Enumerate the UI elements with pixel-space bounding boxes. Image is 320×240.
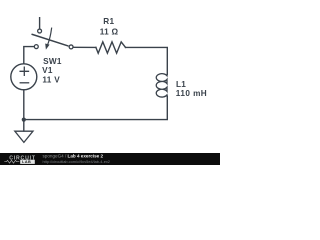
SW1 actuation arrow arc [48, 28, 52, 44]
svg-text:V1: V1 [42, 66, 53, 75]
wire: R1 to top-right corner down to L1 [126, 47, 168, 74]
svg-text:R1: R1 [103, 17, 114, 26]
CircuitLab logo LAB box [20, 160, 35, 164]
V1 minus sign [20, 82, 28, 84]
wire: SW1 common to R1 [73, 46, 96, 48]
SW1 blade [32, 34, 68, 45]
SW1 top terminal stub wire [39, 18, 41, 29]
wire: SW1 left throw to V1 plus terminal [24, 47, 34, 64]
svg-text:SW1: SW1 [43, 57, 62, 66]
SW1 pin circle (top throw) [38, 29, 42, 33]
switch SW1 [32, 18, 73, 50]
wire: L1 bottom lead and bottom rail to junction [24, 96, 168, 119]
footer attribution bar [0, 153, 220, 165]
junction dot on bottom rail [22, 118, 26, 122]
SW1 pin circle (left throw) [34, 45, 38, 49]
resistor R1 [96, 42, 126, 53]
V1 plus sign [20, 67, 28, 75]
svg-text:L1: L1 [176, 80, 186, 89]
ground [15, 131, 33, 142]
CircuitLab logo resistor zigzag [4, 160, 19, 163]
svg-text:110 mH: 110 mH [176, 89, 207, 98]
voltage source V1 [11, 64, 37, 90]
V1 body circle [11, 64, 37, 90]
SW1 arrowhead [45, 44, 49, 50]
wire: V1 minus terminal down to ground [23, 90, 25, 131]
SW1 pin circle (common, right) [69, 45, 73, 49]
svg-text:11 V: 11 V [42, 76, 60, 85]
svg-text:11 Ω: 11 Ω [100, 27, 119, 36]
inductor L1 [156, 74, 167, 97]
